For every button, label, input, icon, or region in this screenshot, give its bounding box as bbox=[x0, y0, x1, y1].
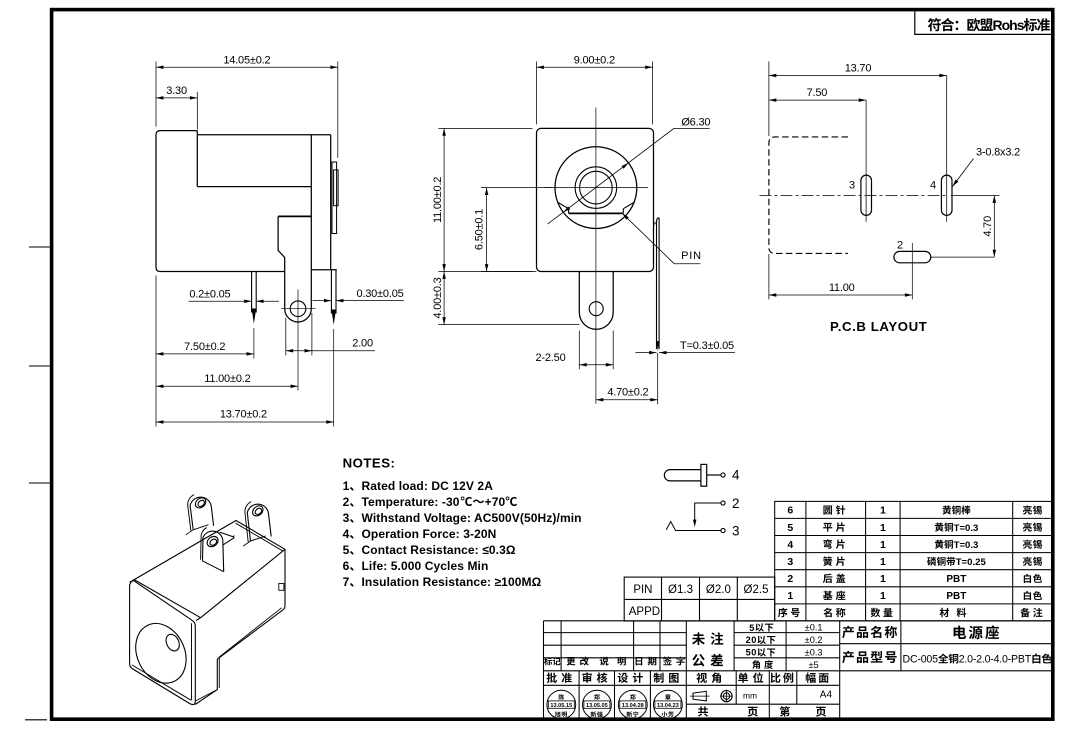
svg-text:NOTES:: NOTES: bbox=[343, 455, 396, 470]
svg-text:Insulation Resistance: ≥100MΩ: Insulation Resistance: ≥100MΩ bbox=[362, 575, 542, 589]
svg-text:13.04.23: 13.04.23 bbox=[657, 703, 679, 709]
svg-text:5: 5 bbox=[787, 522, 793, 534]
svg-text:1: 1 bbox=[880, 573, 886, 585]
svg-text:2: 2 bbox=[732, 496, 740, 511]
svg-text:mm: mm bbox=[743, 691, 757, 701]
svg-text:50: 50 bbox=[746, 648, 757, 658]
svg-text:1: 1 bbox=[880, 590, 886, 602]
svg-text:4.70: 4.70 bbox=[982, 216, 994, 237]
svg-text:13.05.15: 13.05.15 bbox=[550, 703, 572, 709]
svg-text:DC-005: DC-005 bbox=[903, 654, 939, 666]
svg-text:13.70±0.2: 13.70±0.2 bbox=[220, 409, 267, 421]
svg-text:Operation Force: 3-20N: Operation Force: 3-20N bbox=[362, 527, 497, 541]
svg-text:2: 2 bbox=[343, 495, 350, 509]
svg-text:11.00±0.2: 11.00±0.2 bbox=[204, 373, 250, 385]
svg-text:11.00: 11.00 bbox=[829, 282, 855, 294]
svg-text:1: 1 bbox=[343, 479, 350, 493]
svg-text:5: 5 bbox=[749, 623, 755, 633]
svg-text:3: 3 bbox=[732, 523, 740, 538]
svg-text:PBT: PBT bbox=[946, 591, 966, 602]
svg-text:2-2.50: 2-2.50 bbox=[536, 352, 566, 364]
svg-text:PBT: PBT bbox=[946, 574, 966, 585]
svg-text:A4: A4 bbox=[820, 690, 833, 701]
svg-text:1: 1 bbox=[787, 590, 793, 602]
svg-text:7.50±0.2: 7.50±0.2 bbox=[184, 341, 225, 353]
svg-text:4: 4 bbox=[787, 539, 793, 551]
svg-text:+70: +70 bbox=[485, 495, 506, 509]
svg-text:T=0.3: T=0.3 bbox=[954, 523, 979, 534]
svg-text:3-0.8x3.2: 3-0.8x3.2 bbox=[976, 146, 1020, 158]
svg-text:3: 3 bbox=[343, 511, 350, 525]
svg-text:1: 1 bbox=[880, 556, 886, 568]
svg-text:13.04.28: 13.04.28 bbox=[622, 703, 644, 709]
svg-text:20: 20 bbox=[746, 635, 757, 645]
svg-text:PIN: PIN bbox=[633, 584, 652, 596]
svg-text:Ø1.3: Ø1.3 bbox=[668, 584, 693, 596]
svg-text:T=0.25: T=0.25 bbox=[956, 557, 987, 568]
svg-text:2.00: 2.00 bbox=[352, 338, 373, 350]
svg-text:3: 3 bbox=[787, 556, 793, 568]
svg-text:13.05.05: 13.05.05 bbox=[586, 703, 608, 709]
svg-text:11.00±0.2: 11.00±0.2 bbox=[432, 177, 444, 223]
svg-text:Ø6.30: Ø6.30 bbox=[681, 116, 710, 128]
svg-text:Withstand Voltage: AC500V(50Hz: Withstand Voltage: AC500V(50Hz)/min bbox=[362, 511, 582, 525]
svg-text:3: 3 bbox=[849, 179, 855, 191]
svg-text:Ø2.0: Ø2.0 bbox=[706, 584, 731, 596]
svg-text:APPD: APPD bbox=[629, 606, 660, 618]
svg-text:±0.1: ±0.1 bbox=[805, 623, 823, 633]
svg-text:Temperature: -30: Temperature: -30 bbox=[362, 495, 460, 509]
svg-text:±0.3: ±0.3 bbox=[805, 648, 823, 658]
svg-text:6: 6 bbox=[787, 505, 793, 517]
svg-text:7: 7 bbox=[343, 575, 350, 589]
svg-text:4: 4 bbox=[343, 527, 350, 541]
svg-text:1: 1 bbox=[880, 522, 886, 534]
svg-text:2: 2 bbox=[897, 239, 903, 251]
svg-text:0.30±0.05: 0.30±0.05 bbox=[356, 288, 403, 300]
svg-text:3.30: 3.30 bbox=[166, 85, 187, 97]
svg-text:T=0.3±0.05: T=0.3±0.05 bbox=[680, 340, 734, 352]
svg-text:Rated load: DC 12V 2A: Rated load: DC 12V 2A bbox=[362, 479, 494, 493]
svg-text:2: 2 bbox=[787, 573, 793, 585]
svg-text:7.50: 7.50 bbox=[807, 87, 828, 99]
svg-text:0.2±0.05: 0.2±0.05 bbox=[189, 289, 230, 301]
svg-text:Rohs: Rohs bbox=[993, 17, 1025, 33]
svg-text:1: 1 bbox=[880, 539, 886, 551]
svg-text:PIN: PIN bbox=[681, 250, 702, 262]
svg-text:4: 4 bbox=[732, 467, 740, 482]
svg-text:4: 4 bbox=[930, 179, 936, 191]
svg-text:1: 1 bbox=[880, 505, 886, 517]
svg-text:9.00±0.2: 9.00±0.2 bbox=[574, 55, 615, 67]
svg-text:4.00±0.3: 4.00±0.3 bbox=[432, 277, 444, 318]
svg-text:2.0-2.0-4.0-PBT: 2.0-2.0-4.0-PBT bbox=[959, 654, 1032, 666]
svg-text:6.50±0.1: 6.50±0.1 bbox=[474, 209, 486, 250]
svg-text:13.70: 13.70 bbox=[845, 62, 872, 74]
svg-text:±5: ±5 bbox=[809, 660, 819, 670]
svg-text:Ø2.5: Ø2.5 bbox=[744, 584, 769, 596]
svg-text:Contact Resistance: ≤0.3Ω: Contact Resistance: ≤0.3Ω bbox=[362, 543, 516, 557]
svg-text:Life: 5.000 Cycles Min: Life: 5.000 Cycles Min bbox=[362, 559, 489, 573]
svg-text:T=0.3: T=0.3 bbox=[954, 540, 979, 551]
svg-text:5: 5 bbox=[343, 543, 350, 557]
svg-text:4.70±0.2: 4.70±0.2 bbox=[607, 387, 648, 399]
svg-text:14.05±0.2: 14.05±0.2 bbox=[223, 55, 270, 67]
svg-text:6: 6 bbox=[343, 559, 350, 573]
svg-text:±0.2: ±0.2 bbox=[805, 635, 823, 645]
svg-text:P.C.B LAYOUT: P.C.B LAYOUT bbox=[830, 319, 927, 334]
